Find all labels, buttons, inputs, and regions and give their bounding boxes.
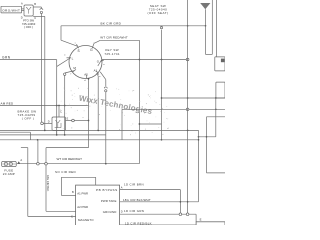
wire vertical 215.8 down: [215, 98, 217, 137]
svg-text:PWR TAKE: PWR TAKE: [101, 199, 117, 203]
vertical wire from PTO connector down to brake switch: [40, 14, 42, 124]
node junctions on H3: [161, 139, 163, 141]
wire from key L pin diagonal to GRN vertical: [57, 58, 70, 67]
svg-text:20 AMP: 20 AMP: [3, 172, 15, 176]
svg-text:L: L: [72, 56, 74, 60]
wire SO CIR RED: [61, 176, 95, 178]
wire B-branch vertical continues to fuse line: [105, 92, 107, 164]
svg-text:G: G: [90, 48, 93, 52]
node junction AM RED on M vertical: [64, 105, 66, 107]
svg-text:GRN: GRN: [2, 55, 11, 59]
wire GRN corner down: [56, 60, 58, 135]
wire vertical 161.5 upper: [161, 26, 163, 27]
svg-text:BK CIR GRD: BK CIR GRD: [101, 21, 122, 25]
node junction brake wire on A2 vertical: [88, 120, 90, 122]
wire from key A1 pin down: [97, 73, 99, 76]
wire harness stub vertical 2: [215, 0, 217, 57]
wire BK CIR GRD horizontal: [61, 25, 206, 27]
svg-text:( OFF ): ( OFF ): [24, 25, 33, 29]
svg-text:D: D: [48, 119, 50, 123]
key switch body circle: [69, 46, 102, 79]
wire from PTO pin B to connector: [33, 6, 41, 8]
svg-text:f: f: [71, 73, 72, 75]
node junction y98.8 on vertical 161.5: [161, 97, 163, 99]
wire from brake D to connector: [43, 122, 52, 124]
wire y116.8 to right edge: [207, 116, 226, 118]
wire from PTO pin C going right then down: [33, 15, 45, 17]
wire from key M pin down: [65, 71, 75, 73]
inline connector on brake E wire: [72, 119, 75, 122]
wire from key switch S pin up to BK CIR GRD: [60, 26, 62, 40]
wire bottom loop to module: [28, 215, 76, 217]
brake switch internal contacts: [55, 120, 57, 123]
wire ID CIR BRN: [120, 189, 181, 191]
inline connector on fuse line 2: [45, 162, 48, 165]
wire from brake E to A2 vertical: [66, 120, 72, 122]
wire from seat ground arrow to BK CIR GRD: [205, 9, 207, 26]
key switch pin L tick and label: [67, 57, 72, 59]
wire bottom edge: [120, 224, 197, 226]
inline connector on fuse line 1: [37, 162, 40, 165]
svg-text:C: C: [60, 109, 62, 113]
svg-text:A: A: [20, 158, 22, 162]
node junctions on y98: [187, 97, 189, 99]
node junctions on H1: [44, 130, 46, 132]
svg-text:(OFF SEAT): (OFF SEAT): [148, 11, 169, 15]
inline connector on PTO pin B wire: [40, 9, 43, 11]
wire vertical 198.5 from H1 down to BLKWHT: [198, 130, 200, 201]
wire WT CIR RED/WHT vertical down: [138, 40, 140, 163]
wire from key G pin up right: [94, 40, 101, 43]
svg-text:PB BYPASS: PB BYPASS: [96, 188, 118, 192]
node junctions on H2: [56, 134, 58, 136]
svg-text:WT CIR RED/WHT: WT CIR RED/WHT: [57, 157, 83, 161]
wire A2 staircase to magneto kill: [46, 147, 89, 149]
wire vertical 206.5 down to 172.9: [206, 117, 208, 173]
wire from key B area down with connector: [100, 72, 106, 80]
svg-text:S: S: [78, 49, 80, 53]
svg-text:WT CIR RED/WHT: WT CIR RED/WHT: [100, 35, 128, 39]
wire fuse line: [17, 163, 139, 165]
component box at right edge with terminal: [215, 57, 225, 71]
wire vertical 122: [121, 109, 123, 140]
svg-text:AM RED: AM RED: [1, 101, 15, 105]
wire label ORG/WHT with callout box: [1, 6, 22, 13]
node junctions on BLK/WHT wire: [180, 201, 182, 203]
flow arrow on H3: [37, 139, 39, 141]
svg-text:18G CIR BLK/WHT: 18G CIR BLK/WHT: [123, 198, 151, 202]
PTO switch SW1 body: [24, 5, 33, 16]
svg-text:1D CIR BRN: 1D CIR BRN: [124, 182, 144, 186]
svg-text:1D CIR RED/BLK: 1D CIR RED/BLK: [125, 221, 152, 225]
watermark text: [78, 94, 153, 116]
wire y98 to right edge: [162, 97, 226, 99]
wire harness stub vertical 1: [211, 0, 213, 54]
wire vertical 27.8 down-left loop: [27, 148, 29, 217]
node junction vertical 161.5 on B wire: [161, 59, 163, 61]
wire from key A2 pin down: [88, 79, 90, 148]
svg-text:d: d: [84, 80, 86, 82]
wire WT CIR RED/WHT horizontal: [100, 39, 139, 41]
node junction right bus on BK CIR GRD: [187, 25, 189, 27]
key switch pin M tick and label: [73, 69, 76, 71]
svg-text:D: D: [121, 209, 123, 213]
fuse F1 body: [2, 161, 17, 166]
svg-text:SO CIR RED: SO CIR RED: [55, 170, 76, 174]
svg-text:Wixx Technologies: Wixx Technologies: [78, 94, 153, 116]
node junction brake C stub on AM RED: [58, 105, 60, 107]
node A marker at fuse: [18, 161, 20, 163]
key switch pin S tick and label: [77, 44, 79, 48]
inline connector on B-branch vertical: [104, 87, 107, 89]
component box right edge middle: [216, 82, 225, 98]
wire stub left of loop vertical: [21, 147, 28, 149]
brake switch body: [52, 117, 66, 131]
inline connector terminal of B wire: [186, 58, 189, 61]
wire vertical 37.9 into fuse line: [37, 140, 39, 163]
wire label 18G CIR BLK vertical: [46, 175, 50, 191]
wire H136.8 link: [199, 136, 216, 138]
module M1 body: [76, 185, 120, 230]
long vertical wire right bus: [187, 0, 189, 213]
component box E: [196, 222, 225, 230]
inline connector on vertical below BK CIR GRD: [160, 26, 162, 28]
svg-text:( OFF ): ( OFF ): [22, 117, 34, 121]
inline connector bottom 2: [186, 213, 189, 216]
svg-text:725-1741: 725-1741: [104, 52, 119, 56]
wire bus H2: [0, 134, 106, 136]
svg-text:A2: A2: [84, 73, 88, 77]
svg-text:1D CIR GRN: 1D CIR GRN: [124, 209, 144, 213]
inline connector on brake D wire: [41, 122, 44, 125]
svg-text:ORG/WHT: ORG/WHT: [2, 8, 20, 12]
wire y172.9 to right edge: [207, 172, 226, 174]
node junctions on fuse line: [105, 163, 107, 165]
wire y109.3 long horizontal: [122, 108, 225, 110]
wire from key switch B pin to right connector: [102, 59, 187, 61]
svg-text:B: B: [72, 190, 74, 194]
wire 18G CIR BLK/WHT: [120, 201, 199, 203]
svg-text:A: A: [121, 185, 123, 189]
svg-text:A1: A1: [94, 68, 98, 72]
wire from ORG/WHT label to PTO switch pin D: [22, 8, 25, 10]
inline connector on M wire: [63, 73, 65, 75]
wire short branch below H1: [0, 131, 30, 133]
wire AM RED from left edge: [0, 105, 89, 107]
node junction on key B wire: [139, 59, 141, 61]
wire bus H1: [0, 129, 199, 131]
node junction seat ground on BK CIR GRD: [205, 25, 207, 27]
svg-text:18G CIR BLK: 18G CIR BLK: [46, 175, 50, 191]
inline connector on long right vertical: [186, 108, 189, 111]
wire stub link U: [206, 53, 213, 55]
svg-text:e: e: [64, 54, 66, 56]
svg-text:C: C: [71, 214, 73, 218]
inline connector bottom 1: [179, 213, 182, 216]
wire jog at 124: [139, 123, 161, 125]
key switch pin G tick and label: [92, 44, 94, 48]
svg-text:B: B: [34, 2, 36, 6]
svg-text:GROUND: GROUND: [103, 210, 117, 214]
wire GRN from left edge: [0, 59, 57, 61]
PTO switch internal contacts: [27, 8, 29, 10]
wire bus H3: [0, 139, 199, 141]
watermark speckles: [93, 94, 96, 97]
wire seat ground vertical continues down: [205, 26, 207, 55]
wire corner down to box E: [195, 214, 197, 222]
svg-text:A: A: [21, 2, 23, 6]
svg-text:A2 PWR: A2 PWR: [77, 205, 88, 209]
key switch pin A2 tick and label: [86, 74, 88, 78]
key switch pin A1 tick and label: [96, 71, 98, 75]
wire 1D CIR GRN bottom: [120, 213, 197, 215]
key switch pin B tick and label: [101, 60, 104, 61]
svg-text:A1 PWR: A1 PWR: [77, 192, 88, 196]
svg-text:e: e: [99, 76, 101, 78]
node junction AM RED on GRN vertical: [56, 105, 58, 107]
wire brake switch C stub up to AM RED: [58, 106, 60, 118]
svg-text:MAGNETO: MAGNETO: [78, 218, 94, 222]
brake switch bottom stub: [56, 131, 58, 135]
svg-text:a: a: [103, 64, 105, 66]
svg-text:E: E: [200, 217, 202, 221]
wire module B pin feed: [60, 177, 62, 195]
seat switch ground arrow: [200, 3, 210, 9]
wire vertical 18G CIR BLK: [45, 165, 47, 211]
